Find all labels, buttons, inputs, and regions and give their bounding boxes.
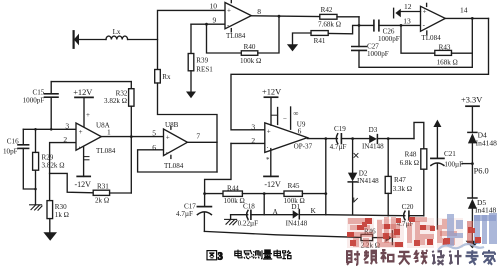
wire [128,39,158,41]
slogan char 专 [466,250,479,265]
logo char 4 [437,214,463,248]
svg-text:C16: C16 [7,138,19,146]
svg-text:5: 5 [152,128,156,137]
svg-text:2k Ω: 2k Ω [95,197,109,205]
svg-text:TL084: TL084 [421,34,441,42]
svg-text:+: + [166,134,170,142]
slogan char 和 [381,250,394,262]
logo char 2 [377,217,404,248]
arrow terminal [385,233,391,242]
slogan char 设 [432,251,445,265]
svg-text:In4148: In4148 [476,138,497,147]
svg-text:*: * [266,156,270,164]
resistor Rx [155,70,161,84]
svg-text:R40: R40 [244,43,256,51]
resistor R47 [387,139,389,177]
svg-text:R47: R47 [394,176,406,184]
svg-text:D2: D2 [359,169,368,177]
svg-text:14: 14 [460,5,468,14]
op-amp U?(TL084 pins 10,9,8) [225,3,251,29]
svg-text:10pF: 10pF [3,147,18,155]
svg-text:+12V: +12V [73,88,92,97]
wire K to C20 [326,215,405,216]
svg-text:D1: D1 [291,203,300,211]
resistor R42 [320,14,337,19]
glyph 电 [274,250,281,258]
svg-text:TL084: TL084 [226,32,246,40]
svg-text:R42: R42 [321,6,333,14]
ground [466,241,480,249]
svg-text:3: 3 [251,123,255,132]
svg-text:.: . [267,142,269,150]
svg-text:3.82k Ω: 3.82k Ω [42,162,65,170]
glyph 感 [244,250,253,259]
logo char 1 [347,218,374,248]
svg-text:R43: R43 [439,44,451,52]
glyph 电 [235,250,242,258]
slogan char 射 [347,251,360,265]
svg-text:1000pF: 1000pF [378,35,400,43]
wire output pin14 [445,17,488,19]
capacitor C15 [51,81,131,83]
svg-text:C15: C15 [33,89,45,97]
wire node A drop [263,194,265,215]
light blue cursive swash [438,244,484,250]
svg-text:4.7µF: 4.7µF [330,143,347,151]
svg-text:168k Ω: 168k Ω [437,58,458,66]
+12V supply U9 [264,96,277,98]
svg-text:100k Ω: 100k Ω [240,57,261,65]
svg-text:+: + [86,111,90,119]
svg-text:1000pF: 1000pF [23,96,45,104]
ground [43,232,57,241]
svg-text:R32: R32 [116,89,128,97]
logo char 3 [407,217,434,248]
capacitor C17 [197,206,211,208]
svg-text:6.8k Ω: 6.8k Ω [400,159,419,167]
wire pin2 OP-37 [231,142,265,144]
svg-text:-12V: -12V [264,180,281,189]
svg-text:U8B: U8B [165,121,179,129]
input arrow (left terminal) [74,34,79,46]
svg-text:IN4148: IN4148 [357,177,379,185]
wire OP-37 output [307,138,337,140]
wire long feedback to OP-37 [231,18,489,129]
svg-text:IN4148: IN4148 [286,219,308,227]
svg-text:R39: R39 [196,56,208,64]
wire [358,17,360,47]
resistor R31 feedback U8A [50,173,94,192]
resistor R46 [361,234,373,240]
ground hatched [30,205,42,210]
wire pin3 U8A [23,128,76,130]
capacitor C18 [231,214,248,216]
slogan char 家 [483,250,495,265]
svg-text:7.68k Ω: 7.68k Ω [318,20,341,28]
slogan char 计 [449,250,462,265]
wire output pin8 [251,15,319,18]
diode D1 [293,210,299,218]
wire pin6 + feedback loop U8B [138,150,217,172]
svg-text:8: 8 [257,7,261,16]
capacitor C26 [373,20,375,31]
capacitor C21 + arrow [433,120,441,127]
svg-text:U8A: U8A [96,121,111,129]
svg-text:TL084: TL084 [96,147,116,155]
resistor R32 [130,82,132,89]
svg-text:3: 3 [218,252,223,263]
svg-text:Rx: Rx [162,73,171,81]
resistor R48 [421,149,427,169]
op-amp U8B [164,129,188,156]
resistor R45 [284,191,302,196]
-12V supply U9 [270,149,272,177]
wire pin2 drop to R44 [205,143,231,206]
svg-text:3.82k Ω: 3.82k Ω [104,97,127,105]
diode D5 [468,197,477,199]
op-amp U8A [76,123,101,150]
svg-text:C20: C20 [402,203,414,211]
resistor R39 [190,24,192,53]
svg-text:9: 9 [213,16,217,25]
svg-text:+12V: +12V [262,87,281,96]
wire pin2 U8A [50,143,76,174]
svg-text:-12V: -12V [75,180,92,189]
svg-text:C21: C21 [444,150,456,158]
svg-text:+: + [227,6,231,14]
svg-text:100µF: 100µF [444,160,463,168]
svg-text:12: 12 [404,2,412,11]
op-amp TL084 pins 12,13,14 [421,6,446,31]
svg-text:∞: ∞ [293,109,298,117]
svg-text:2: 2 [63,135,67,144]
+3.3V supply [466,105,479,107]
svg-text:R29: R29 [42,154,54,162]
resistor R43 [401,25,435,53]
scattered solid blocks [350,218,475,246]
svg-text:Lx: Lx [113,28,121,36]
inductor Lx [106,36,128,39]
svg-text:10: 10 [210,2,218,11]
wire [158,83,218,172]
wire U8A out to U8B pin5 [101,136,163,138]
diode D2 [352,139,354,173]
wire K node up to output [325,139,327,215]
svg-text:RES1: RES1 [196,65,213,73]
svg-text:100k Ω: 100k Ω [224,197,245,205]
node R43 tap [400,24,403,27]
slogan char 频 [364,250,377,264]
svg-text:2: 2 [251,136,255,145]
svg-text:R45: R45 [288,182,300,190]
-12V supply U8A [83,146,85,176]
svg-text:R41: R41 [314,37,326,45]
glyph 图 [207,251,217,260]
svg-text:D3: D3 [369,126,378,134]
svg-text:OP-37: OP-37 [294,142,313,150]
svg-text:6: 6 [152,143,156,152]
svg-text:+3.3V: +3.3V [461,96,482,105]
resistor R30 [49,173,51,200]
svg-text:C19: C19 [334,125,346,133]
wire P6.0 stub [462,163,472,165]
svg-text:7: 7 [196,131,200,140]
resistor R40 feedback [207,24,242,53]
op-amp U9 OP-37 [265,123,308,153]
svg-text:3.3k Ω: 3.3k Ω [393,185,412,193]
svg-text:R48: R48 [405,151,417,159]
wire pin9 [191,23,225,25]
ground arrow pin12 [395,9,400,17]
svg-text:.: . [79,141,81,149]
node pin9/R40 junction [205,23,208,26]
ground [190,71,192,92]
svg-text:C18: C18 [243,203,255,211]
svg-text:A: A [273,208,279,216]
resistor R29 [33,152,39,170]
ground [287,44,298,51]
svg-text:P6.0: P6.0 [474,166,489,175]
svg-text:1k Ω: 1k Ω [55,211,69,219]
svg-text:R30: R30 [55,203,67,211]
resistor R44 [205,193,223,195]
glyph 路 [282,250,291,258]
svg-text:3: 3 [65,122,69,131]
svg-text:−: − [283,114,287,122]
svg-text:TL084: TL084 [164,162,184,170]
wire U8B out [187,141,217,143]
svg-text:6: 6 [298,127,302,136]
+12V supply U8A [75,96,93,98]
slogan char 天 [398,252,411,264]
svg-text:4.7µF: 4.7µF [176,210,193,218]
glyph 量 [263,250,272,259]
ground hatched C18 [230,215,232,220]
resistor R41 [311,31,328,36]
wire [158,10,226,69]
capacitor C20 [404,211,405,220]
logo char 5 [467,213,497,245]
wire bottom rail [204,231,361,237]
svg-text:K: K [311,207,317,215]
svg-text:R31: R31 [97,182,109,190]
svg-text:0.22µF: 0.22µF [238,220,259,228]
slogan char 线 [415,250,428,264]
glyph 测 [253,250,262,259]
capacitor C19 [336,134,337,144]
svg-text:R44: R44 [227,185,239,193]
capacitor C16 [18,144,29,146]
wire bracket to R48 [414,122,424,148]
diode D4 [468,131,477,133]
wire [78,39,106,41]
svg-text:C27: C27 [367,42,379,50]
svg-text:+: + [423,8,427,16]
capacitor C27 [352,46,367,48]
diode D3 [369,135,377,143]
svg-text:1000pF: 1000pF [367,50,389,58]
svg-text:13: 13 [403,17,411,26]
svg-text:IN4148: IN4148 [362,143,384,151]
svg-text:+: + [267,128,271,136]
svg-text:+: + [79,128,83,136]
